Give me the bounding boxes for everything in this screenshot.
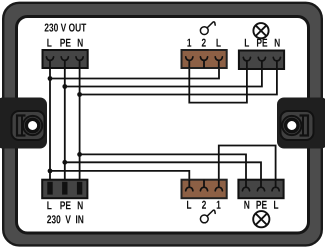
connector switch 2 brown block — [182, 180, 227, 199]
label PE (230V IN) — [60, 201, 70, 209]
symbol switch male bottom — [200, 210, 215, 223]
terminal N of lamp 1 — [273, 57, 280, 68]
terminal L of 230V OUT — [46, 57, 53, 68]
label 1 (switch 1) — [187, 39, 191, 47]
wire switch2 output to lamp2 L — [219, 146, 276, 181]
label PE (230V OUT) — [60, 39, 70, 47]
label L (switch 2) — [187, 201, 191, 209]
label 1 (switch 2) — [217, 201, 221, 209]
wire L vertical left — [49, 68, 51, 180]
label N (lamp 1) — [275, 39, 280, 47]
node PE bottom — [62, 160, 67, 165]
symbol lamp top — [253, 23, 268, 38]
node L bottom — [48, 169, 53, 174]
mounting tab left — [0, 98, 47, 149]
label 230 V OUT — [45, 23, 87, 31]
interior — [17, 17, 309, 234]
connector 230V IN block — [42, 180, 87, 199]
wire PE vertical left — [64, 68, 66, 180]
terminal L of lamp 2 — [272, 180, 279, 191]
node PE top — [62, 84, 67, 89]
wire switch1 output to lamp1 L — [189, 68, 247, 103]
terminal 2 of switch 1 — [200, 57, 207, 68]
label N (230V OUT) — [78, 39, 83, 47]
terminal PE of 230V OUT — [61, 57, 68, 68]
node L top — [48, 76, 53, 81]
mounting tab right — [277, 98, 325, 149]
label 2 (switch 2) — [202, 201, 206, 209]
terminal N of lamp 2 — [242, 180, 249, 191]
label L (230V IN) — [47, 201, 51, 209]
terminal 1 of switch 2 — [215, 180, 222, 191]
wire PE to lamp1 — [65, 68, 262, 87]
symbol lamp bottom — [253, 211, 269, 227]
connector lamp 1 black block — [239, 51, 284, 70]
label L (lamp 2) — [274, 201, 278, 209]
terminal 1 of switch 1 — [186, 57, 193, 68]
label L (switch 1) — [217, 39, 221, 47]
pin N — [77, 182, 82, 195]
connector 230V OUT block — [43, 50, 88, 68]
label 2 (switch 1) — [202, 39, 206, 47]
label L (230V OUT) — [47, 39, 51, 47]
node N top — [77, 92, 82, 97]
terminal N of 230V OUT — [76, 57, 83, 68]
wire PE to lamp2 — [65, 162, 261, 180]
pin L — [47, 182, 52, 195]
connector switch 1 brown block — [182, 50, 227, 68]
label PE (lamp 2) — [256, 201, 266, 209]
label N (lamp 2) — [244, 201, 249, 209]
label L (lamp 1) — [245, 39, 249, 47]
terminal PE of lamp 1 — [258, 57, 265, 68]
terminal L of lamp 1 — [243, 57, 250, 68]
label N (230V IN) — [78, 201, 83, 209]
symbol switch male top — [200, 22, 215, 35]
terminal L of switch 1 — [215, 57, 222, 68]
wire L feed to switch2 — [50, 171, 189, 180]
label 230 V IN — [47, 215, 83, 223]
wire L feed to switch1 — [50, 68, 219, 79]
wire N to lamp2 — [80, 154, 246, 180]
terminal L of switch 2 — [186, 180, 193, 191]
node N bottom — [77, 152, 82, 157]
label PE (lamp 1) — [257, 39, 267, 47]
terminal PE of lamp 2 — [257, 180, 264, 191]
terminal 2 of switch 2 — [200, 180, 207, 191]
wire N vertical left — [79, 68, 81, 180]
wire N to lamp1 — [80, 68, 277, 95]
pin PE — [62, 182, 67, 195]
connector lamp 2 black block — [238, 180, 283, 199]
